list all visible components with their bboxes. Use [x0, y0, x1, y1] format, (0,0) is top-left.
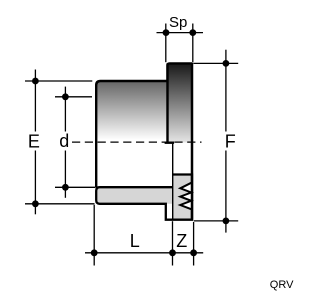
flange / socket right edge: [191, 63, 194, 220]
dimension F line lower: [225, 151, 227, 233]
svg-text:Z: Z: [176, 231, 187, 251]
flange lip bottom edge: [165, 141, 175, 143]
d dot bottom: [62, 184, 69, 191]
L/Z shared dot: [169, 249, 176, 256]
section outline (wall strip, skirt, socket bottom, socket top): [96, 175, 192, 220]
svg-text:E: E: [28, 131, 40, 151]
dimension d line lower: [64, 151, 66, 198]
Z dot right: [190, 249, 197, 256]
thread zigzag: [180, 183, 191, 209]
Z extension left: [172, 221, 174, 265]
Sp dot right: [189, 29, 196, 36]
dimension E line lower: [34, 151, 36, 215]
dimension E line upper: [34, 70, 36, 132]
d extension bottom: [55, 186, 95, 188]
Sp dot left: [163, 29, 170, 36]
E dot top: [32, 78, 39, 85]
Sp extension left: [165, 24, 167, 63]
L dot left: [91, 249, 98, 256]
svg-text:QRV: QRV: [270, 279, 294, 291]
F dot bottom: [223, 218, 230, 225]
Sp extension right: [192, 24, 194, 63]
svg-text:F: F: [225, 132, 236, 152]
section fill: pipe wall strip: [96, 187, 173, 204]
svg-text:L: L: [130, 231, 140, 251]
L extension left: [93, 205, 95, 266]
F extension top: [194, 62, 239, 64]
body outline (top + left edge): [96, 81, 167, 188]
svg-text:Sp: Sp: [169, 14, 187, 31]
F dot top: [223, 60, 230, 67]
d dot top: [62, 93, 69, 100]
dimension F line upper: [225, 50, 227, 132]
centerline: [72, 141, 202, 143]
section fill: threaded socket block: [172, 175, 192, 220]
flange upper half (shaded): [166, 63, 193, 142]
E extension top: [25, 80, 92, 82]
F extension bottom: [194, 220, 239, 222]
d extension top: [55, 96, 92, 98]
Z extension right: [193, 222, 195, 266]
socket inner face line: [172, 144, 174, 220]
dimension Sp line: [157, 32, 204, 34]
body upper half (spigot, shaded): [96, 81, 169, 143]
E extension bottom: [25, 203, 95, 205]
thread teeth (white): [180, 183, 191, 209]
svg-text:d: d: [59, 131, 69, 151]
dimension d line upper: [64, 87, 66, 132]
flange outline (top + left edge): [168, 63, 193, 142]
E dot bottom: [32, 200, 39, 207]
dimension L/Z line: [85, 252, 203, 254]
